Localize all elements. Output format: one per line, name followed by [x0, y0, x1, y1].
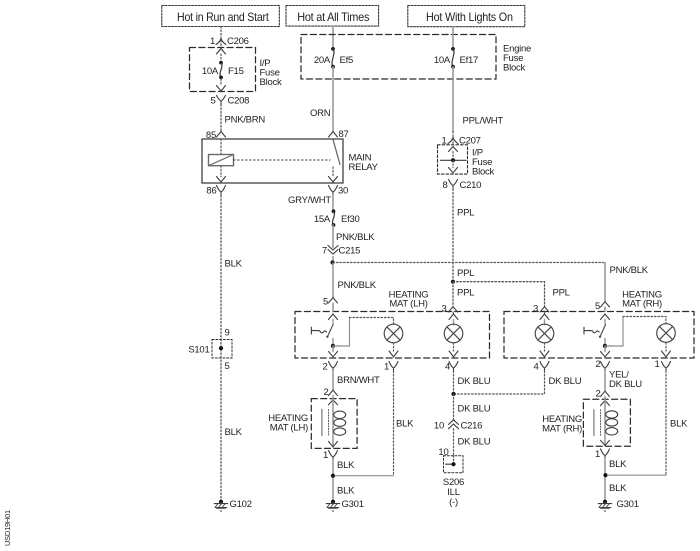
wire PPL: C210 down to junction (dotted): [453, 189, 474, 282]
relay U1 MAIN RELAY box: [202, 139, 379, 183]
svg-text:C215: C215: [339, 246, 361, 257]
svg-text:1: 1: [595, 449, 600, 460]
svg-text:87: 87: [339, 129, 349, 140]
svg-text:USD19H01: USD19H01: [3, 510, 12, 546]
svg-text:PNK/BRN: PNK/BRN: [225, 115, 266, 126]
svg-text:BLK: BLK: [609, 459, 627, 470]
wire PPL branch: junction right then down to RH box pin 3 (dotted): [453, 282, 570, 307]
svg-text:10: 10: [434, 421, 444, 432]
relay pin 86 fork: [206, 186, 225, 197]
wire: Hot in Run and Start to connector C206 (dotted): [220, 27, 222, 38]
RH indicator lamp (pin 3-4): [535, 324, 554, 357]
LH pin 3 arrow into box: [441, 304, 458, 326]
junction node: DK BLU wires join: [451, 392, 455, 396]
LH mat element pin 1 fork: [323, 450, 338, 461]
heating element HEATING MAT (LH): [268, 399, 357, 449]
svg-text:F15: F15: [228, 66, 244, 77]
wire BLK: relay 86 down to ground G102 (dotted): [221, 196, 243, 502]
connector C216 pin 10 (double chevron up): [434, 420, 482, 432]
connector C215 pin 7 (double chevron): [322, 246, 360, 257]
svg-text:86: 86: [206, 186, 216, 197]
svg-text:BLK: BLK: [225, 259, 243, 270]
RH pin 2 fork below box: [595, 359, 609, 371]
svg-text:10A: 10A: [434, 55, 451, 66]
LH heating mat assembly dashed box: [295, 312, 490, 359]
pin arrow out of fuse block bottom: [217, 79, 226, 91]
wire BLK: RH mat to ground G301: [605, 459, 627, 502]
RH pin 4 fork below box: [533, 362, 549, 373]
svg-text:G102: G102: [230, 499, 252, 510]
svg-text:C216: C216: [461, 421, 483, 432]
power label box: Hot With Lights On: [408, 6, 525, 27]
relay coil: [209, 139, 234, 182]
relay actuating dotted link: [234, 159, 331, 161]
svg-text:G301: G301: [342, 499, 364, 510]
splice S101: [188, 328, 232, 373]
svg-text:DK BLU: DK BLU: [458, 437, 491, 448]
svg-text:Ef17: Ef17: [460, 55, 479, 66]
svg-text:5: 5: [323, 297, 328, 308]
svg-text:MAT (RH): MAT (RH): [622, 299, 662, 310]
svg-text:BLK: BLK: [337, 460, 355, 471]
svg-text:10A: 10A: [202, 66, 219, 77]
junction node: PNK/BLK splits to LH and RH mats: [330, 257, 334, 265]
RH mat element pin 2 arrow: [595, 389, 609, 400]
svg-text:PPL: PPL: [457, 208, 474, 219]
svg-text:C210: C210: [460, 180, 482, 191]
RH pin 5 arrow into box: [595, 301, 610, 324]
LH indicator lamp 1: [384, 324, 403, 357]
HEATING MAT (RH) switch assembly label: [622, 290, 662, 310]
wire PPL/WHT: Ef17 down to connector C207: [453, 67, 503, 132]
svg-text:15A: 15A: [314, 214, 331, 225]
LH wire: switch junction to lamp 1 (dotted elbow): [333, 318, 394, 347]
svg-text:1: 1: [210, 36, 215, 47]
svg-text:3: 3: [441, 304, 446, 315]
relay pin 87 arrow: [329, 129, 349, 140]
svg-text:PPL/WHT: PPL/WHT: [463, 116, 504, 127]
RH thermal switch: [584, 325, 610, 357]
svg-text:DK BLU: DK BLU: [609, 379, 642, 390]
svg-text:PPL: PPL: [457, 268, 474, 279]
svg-text:Hot at All Times: Hot at All Times: [297, 10, 369, 24]
svg-text:1: 1: [384, 362, 389, 373]
heating element HEATING MAT (RH): [542, 399, 630, 446]
svg-text:C208: C208: [228, 96, 250, 107]
svg-text:DK BLU: DK BLU: [458, 404, 491, 415]
relay switch contact 87-30: [329, 140, 341, 183]
svg-text:RELAY: RELAY: [349, 162, 379, 173]
svg-text:7: 7: [322, 246, 327, 257]
svg-text:MAT (RH): MAT (RH): [542, 424, 582, 435]
svg-text:30: 30: [338, 186, 348, 197]
wire ORN: Ef5 down to relay pin 87: [310, 67, 333, 131]
svg-text:5: 5: [210, 96, 215, 107]
wire GRY/WHT: relay 30 down to fuse Ef30: [288, 195, 333, 211]
wire PNK/BLK: Ef30 down to connector C215: [333, 225, 375, 248]
svg-text:BLK: BLK: [670, 419, 688, 430]
svg-text:8: 8: [442, 180, 447, 191]
relay pin 85 arrow: [206, 130, 226, 141]
svg-text:ORN: ORN: [310, 108, 331, 119]
bus bar with junction inside right I/P fuse block: [441, 147, 467, 173]
power label box: Hot in Run and Start: [162, 6, 279, 27]
svg-text:Ef5: Ef5: [340, 55, 354, 66]
svg-text:Hot With Lights On: Hot With Lights On: [426, 10, 513, 24]
svg-text:4: 4: [533, 362, 538, 373]
svg-text:S101: S101: [188, 345, 209, 356]
svg-text:1: 1: [654, 359, 659, 370]
fuse Ef30 15A: [314, 209, 360, 227]
RH heating mat assembly dashed box: [504, 312, 694, 359]
relay pin 30 fork: [329, 186, 349, 197]
ground G102: [214, 499, 251, 512]
wire YEL/DK BLU: RH pin 2 down to RH mat element: [605, 370, 642, 392]
svg-text:BLK: BLK: [609, 483, 627, 494]
Engine Fuse Block dashed outline: [301, 35, 531, 80]
svg-text:2: 2: [595, 359, 600, 370]
svg-text:5: 5: [595, 301, 600, 312]
wire BRN/WHT: LH pin 2 down to LH mat element: [333, 371, 380, 390]
wire BLK: RH lamp pin 1 down and left to junction (dotted): [608, 371, 689, 475]
svg-text:Block: Block: [472, 167, 494, 178]
RH pin 3 arrow into box: [533, 304, 549, 326]
svg-text:2: 2: [323, 387, 328, 398]
svg-text:2: 2: [595, 389, 600, 400]
wire: C206 into I/P fuse block: [220, 44, 222, 48]
drawing number (rotated): [3, 510, 12, 546]
svg-text:MAT (LH): MAT (LH): [389, 299, 427, 310]
svg-text:PNK/BLK: PNK/BLK: [336, 232, 375, 243]
pin arrow into fuse block top: [217, 49, 226, 62]
svg-text:20A: 20A: [314, 55, 331, 66]
LH indicator lamp 2: [444, 324, 463, 357]
junction node: PPL splits to LH lamp and RH lamp: [451, 280, 474, 307]
junction node: RH BLK wires join: [603, 473, 607, 477]
wire BLK: LH mat to ground G301: [333, 460, 355, 502]
svg-text:BLK: BLK: [337, 486, 355, 497]
svg-text:MAT (LH): MAT (LH): [270, 423, 308, 434]
connector C210 pin 8: [442, 180, 481, 192]
svg-text:BLK: BLK: [396, 419, 414, 430]
wire: Hot at All Times to fuse Ef5: [332, 26, 334, 48]
svg-text:Block: Block: [260, 77, 282, 88]
svg-text:2: 2: [322, 362, 327, 373]
I/P Fuse Block (right) dotted outline: [438, 145, 495, 178]
ground G301 (left): [326, 499, 363, 512]
RH indicator lamp (pin 1): [657, 324, 676, 357]
wire PNK/BLK branch: junction right to RH switch (dotted) then down: [333, 263, 649, 302]
svg-text:Ef30: Ef30: [341, 214, 360, 225]
svg-text:DK BLU: DK BLU: [549, 376, 582, 387]
svg-text:(-): (-): [449, 497, 458, 508]
junction node: LH BLK wires join: [331, 474, 335, 478]
svg-text:1: 1: [323, 450, 328, 461]
LH mat element pin 2 arrow: [323, 387, 337, 399]
svg-text:3: 3: [533, 304, 538, 315]
wire PNK/BRN: C208 down to relay pin 85 (dotted): [221, 105, 265, 132]
fuse F15 10A: [202, 61, 244, 80]
LH pin 1 fork below box: [384, 362, 398, 373]
svg-text:PNK/BLK: PNK/BLK: [338, 280, 377, 291]
svg-text:PPL: PPL: [553, 288, 570, 299]
wire DK BLU: junction down to connector C216 (dotted): [454, 394, 491, 420]
svg-text:5: 5: [225, 361, 230, 372]
svg-text:9: 9: [225, 328, 230, 339]
I/P Fuse Block (left) dashed outline: [190, 48, 282, 92]
splice S206 ILL (-): [443, 456, 464, 508]
svg-text:G301: G301: [617, 499, 639, 510]
connector C206 pin 1: [210, 36, 249, 47]
svg-text:Block: Block: [503, 63, 525, 74]
fuse Ef5 20A: [314, 47, 353, 69]
ground G301 (right): [598, 499, 638, 512]
power label box: Hot at All Times: [286, 6, 379, 27]
svg-text:BRN/WHT: BRN/WHT: [337, 375, 380, 386]
connector C207 pin 1: [441, 132, 480, 147]
LH pin 4 fork below box: [445, 362, 458, 373]
HEATING MAT (LH) switch assembly label: [389, 290, 429, 310]
svg-text:BLK: BLK: [225, 427, 243, 438]
RH pin 1 fork below box: [654, 359, 670, 371]
connector C208 pin 5: [210, 96, 249, 107]
RH wire: switch junction to lamp (dotted elbow): [605, 317, 666, 347]
LH pin 2 fork below box: [322, 362, 337, 373]
fuse Ef17 10A: [434, 47, 478, 69]
svg-text:PNK/BLK: PNK/BLK: [610, 265, 649, 276]
wire: Hot With Lights On to fuse Ef17: [452, 27, 454, 48]
svg-text:Hot in Run and Start: Hot in Run and Start: [177, 10, 269, 24]
svg-text:GRY/WHT: GRY/WHT: [288, 195, 331, 206]
wire BLK: LH lamp pin 1 down and left to junction (dotted): [335, 371, 414, 476]
wire DK BLU: RH pin 4 down then left to junction (dotted): [455, 371, 582, 394]
wire PNK/BLK: junction down to LH switch pin 5: [333, 263, 377, 298]
wire DK BLU: LH pin 4 down to junction (dotted): [454, 371, 491, 394]
svg-text:PPL: PPL: [457, 288, 474, 299]
LH pin 5 arrow into box: [323, 297, 338, 325]
wire DK BLU: C216 down to splice S206 (dotted): [438, 429, 490, 458]
svg-text:C206: C206: [227, 36, 249, 47]
LH thermal switch: [311, 325, 337, 357]
RH mat element pin 1 fork: [595, 449, 610, 460]
svg-text:DK BLU: DK BLU: [458, 376, 491, 387]
